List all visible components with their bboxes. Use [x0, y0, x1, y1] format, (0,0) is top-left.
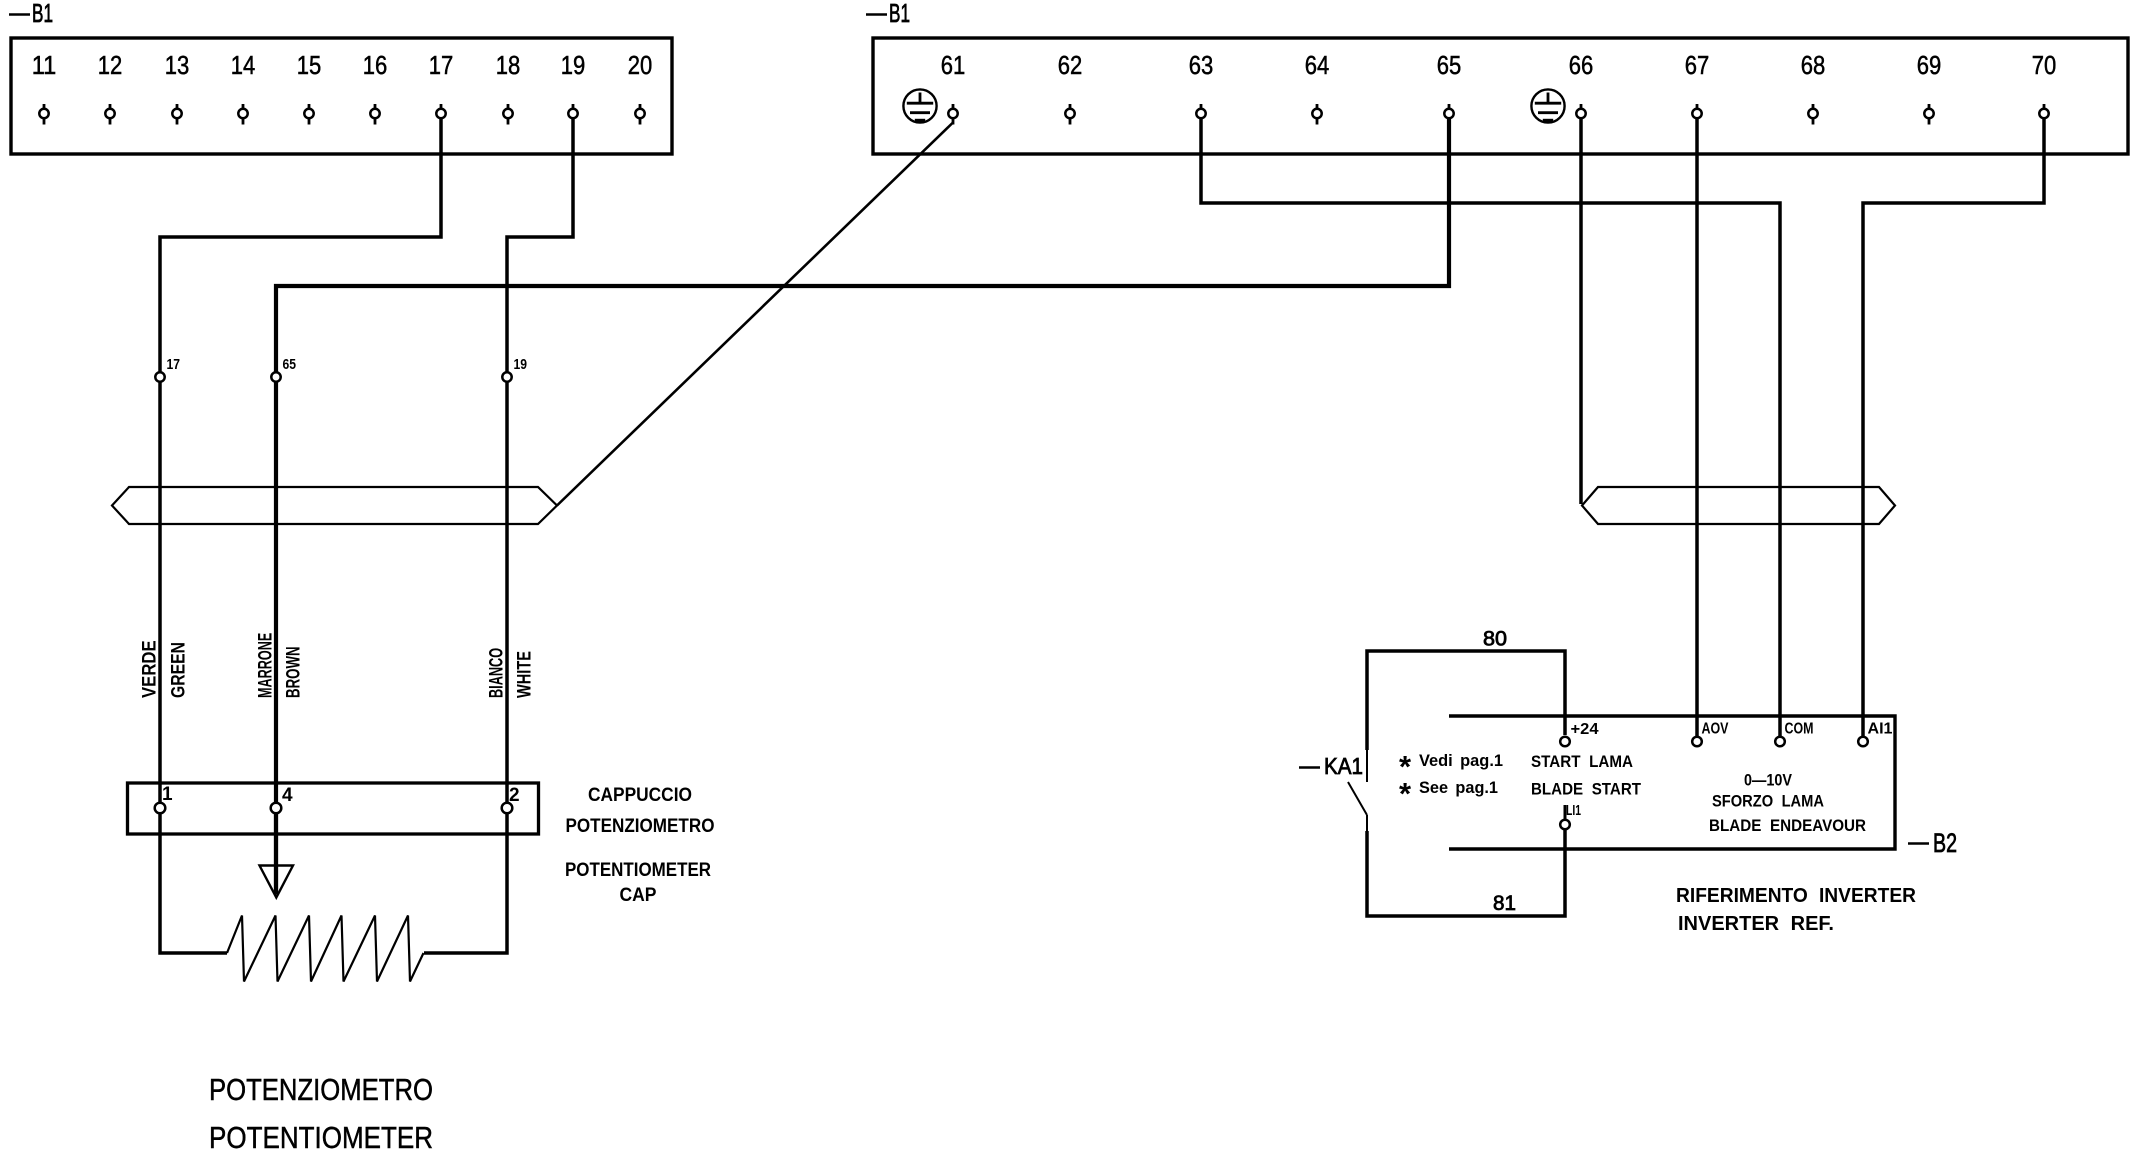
terminal 11 — [32, 50, 57, 125]
svg-text:VERDE: VERDE — [140, 640, 161, 698]
terminal 65 — [1437, 50, 1462, 125]
svg-text:19: 19 — [561, 50, 586, 80]
svg-text:SFORZO LAMA: SFORZO LAMA — [1712, 792, 1824, 811]
cable shield symbol (left cable) — [112, 487, 557, 524]
wire from terminal 67 to B2 pin AOV — [1695, 118, 1699, 741]
svg-text:80: 80 — [1483, 628, 1507, 651]
svg-text:POTENTIOMETER: POTENTIOMETER — [565, 860, 711, 881]
cap pin 4 — [271, 785, 293, 813]
svg-text:START LAMA: START LAMA — [1531, 752, 1633, 771]
label -B1 (right block) — [866, 0, 910, 28]
svg-text:63: 63 — [1189, 50, 1214, 80]
label -KA1 — [1299, 753, 1363, 779]
svg-text:20: 20 — [628, 50, 653, 80]
label -B2 — [1908, 828, 1957, 858]
svg-text:12: 12 — [98, 50, 123, 80]
B2 pin +24 — [1560, 721, 1599, 746]
svg-text:+24: +24 — [1571, 721, 1599, 738]
svg-text:POTENZIOMETRO: POTENZIOMETRO — [209, 1072, 433, 1107]
inverter block B2 (open-left box) — [1449, 716, 1895, 849]
label -B1 (left block) — [9, 0, 53, 28]
relay contact KA1 (NO contact) — [1348, 750, 1367, 831]
svg-text:17: 17 — [167, 356, 181, 373]
node 19 (wire number) — [502, 356, 527, 382]
terminal 15 — [297, 50, 322, 125]
svg-text:B2: B2 — [1933, 828, 1957, 858]
wire from terminal 70 to B2 pin AI1 — [1863, 118, 2044, 741]
terminal 70 — [2032, 50, 2057, 125]
svg-text:11: 11 — [32, 50, 57, 80]
B2 pin COM — [1775, 721, 1813, 747]
wire from terminal 19 to potentiometer pin 2 (net 19) — [424, 118, 573, 953]
svg-text:2: 2 — [509, 785, 520, 806]
node 65 (wire number) — [271, 356, 296, 382]
potentiometer cap (connector) — [128, 783, 539, 834]
cap pin 1 — [155, 784, 173, 813]
B2 pin LI1 — [1560, 802, 1581, 829]
svg-text:Vedi pag.1: Vedi pag.1 — [1419, 751, 1503, 770]
svg-text:AOV: AOV — [1702, 721, 1730, 738]
svg-text:70: 70 — [2032, 50, 2057, 80]
svg-text:69: 69 — [1917, 50, 1942, 80]
terminal 67 — [1685, 50, 1710, 125]
node 17 (wire number) — [155, 356, 180, 382]
ground symbol (protective earth, terminal 61) — [903, 89, 936, 122]
svg-text:POTENZIOMETRO: POTENZIOMETRO — [566, 816, 715, 837]
svg-text:WHITE: WHITE — [515, 651, 536, 698]
svg-text:AI1: AI1 — [1868, 721, 1893, 738]
wire 81 (KA1 to B2 LI1) — [1367, 830, 1565, 916]
svg-text:19: 19 — [514, 356, 528, 373]
svg-text:MARRONE: MARRONE — [256, 633, 277, 698]
wire from terminal 65 to potentiometer wiper (net 65) — [276, 118, 1449, 808]
B2 pin AI1 — [1858, 721, 1893, 747]
cable shield symbol (right cable) — [1582, 487, 1895, 524]
terminal block B1 (right) — [873, 38, 2128, 154]
svg-text:BIANCO: BIANCO — [487, 648, 508, 698]
svg-text:13: 13 — [165, 50, 190, 80]
cap pin 2 — [502, 785, 520, 813]
svg-text:1: 1 — [162, 784, 173, 805]
terminal block B1 (left) — [11, 38, 672, 154]
svg-text:65: 65 — [1437, 50, 1462, 80]
svg-text:67: 67 — [1685, 50, 1710, 80]
terminal 19 — [561, 50, 586, 125]
svg-text:62: 62 — [1058, 50, 1083, 80]
terminal 61 — [941, 50, 966, 125]
svg-text:15: 15 — [297, 50, 322, 80]
terminal 20 — [628, 50, 653, 125]
wire wiper lead (thick) — [274, 808, 278, 895]
terminal 68 — [1801, 50, 1826, 125]
svg-text:POTENTIOMETER: POTENTIOMETER — [209, 1120, 433, 1152]
terminal 14 — [231, 50, 256, 125]
svg-text:14: 14 — [231, 50, 256, 80]
svg-text:17: 17 — [429, 50, 454, 80]
terminal 66 — [1569, 50, 1594, 125]
svg-text:LI1: LI1 — [1566, 802, 1581, 819]
svg-text:18: 18 — [496, 50, 521, 80]
terminal 17 — [429, 50, 454, 125]
terminal 18 — [496, 50, 521, 125]
svg-text:B1: B1 — [889, 0, 910, 28]
svg-text:BROWN: BROWN — [284, 646, 305, 698]
wire from terminal 61 to cable shield (diagonal) — [557, 123, 953, 506]
svg-text:INVERTER REF.: INVERTER REF. — [1678, 913, 1834, 935]
svg-text:4: 4 — [282, 785, 293, 806]
wire from terminal 63 to B2 pin COM — [1201, 118, 1780, 741]
terminal 13 — [165, 50, 190, 125]
terminal 12 — [98, 50, 123, 125]
svg-text:See pag.1: See pag.1 — [1419, 778, 1498, 797]
svg-text:KA1: KA1 — [1324, 753, 1363, 779]
svg-text:COM: COM — [1785, 721, 1814, 738]
terminal 16 — [363, 50, 388, 125]
svg-text:B1: B1 — [32, 0, 53, 28]
terminal 69 — [1917, 50, 1942, 125]
wire from terminal 17 to potentiometer pin 1 (net 17) — [160, 118, 441, 953]
terminal 63 — [1189, 50, 1214, 125]
svg-text:66: 66 — [1569, 50, 1594, 80]
svg-text:*: * — [1399, 776, 1412, 811]
svg-text:GREEN: GREEN — [169, 642, 190, 698]
svg-text:BLADE ENDEAVOUR: BLADE ENDEAVOUR — [1709, 816, 1866, 835]
wire 80 (KA1 to B2 +24) — [1367, 651, 1565, 750]
terminal 62 — [1058, 50, 1083, 125]
B2 pin AOV — [1692, 721, 1729, 747]
potentiometer resistor element — [227, 916, 424, 982]
wire from terminal 66 to cable shield — [1579, 118, 1583, 504]
svg-text:CAPPUCCIO: CAPPUCCIO — [588, 785, 692, 806]
svg-text:65: 65 — [283, 356, 297, 373]
svg-text:RIFERIMENTO INVERTER: RIFERIMENTO INVERTER — [1676, 885, 1917, 907]
svg-text:0—10V: 0—10V — [1744, 771, 1793, 790]
svg-text:16: 16 — [363, 50, 388, 80]
svg-text:61: 61 — [941, 50, 966, 80]
svg-text:68: 68 — [1801, 50, 1826, 80]
svg-text:64: 64 — [1305, 50, 1330, 80]
svg-text:81: 81 — [1493, 892, 1516, 915]
potentiometer wiper arrow — [260, 866, 294, 898]
ground symbol (protective earth, terminal 66) — [1531, 89, 1564, 122]
svg-text:BLADE START: BLADE START — [1531, 780, 1642, 799]
terminal 64 — [1305, 50, 1330, 125]
svg-text:CAP: CAP — [620, 885, 657, 906]
